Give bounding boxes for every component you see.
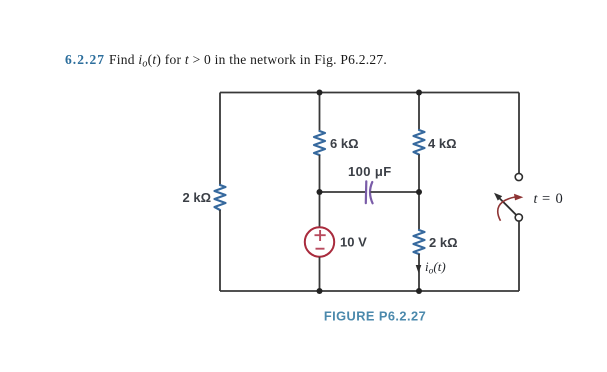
switch top terminal <box>515 173 522 180</box>
svg-text:2 kΩ: 2 kΩ <box>183 190 212 205</box>
svg-text:2 kΩ: 2 kΩ <box>429 235 458 250</box>
resistor 4 kOhm <box>414 130 425 155</box>
wire: right branch bottom <box>418 254 420 291</box>
node top middle <box>317 90 323 96</box>
wire: capacitor row left <box>320 191 367 193</box>
wire: middle branch top <box>319 93 321 132</box>
wire: capacitor row right <box>371 191 420 193</box>
svg-text:6.2.27Find io(t) for t > 0 in: 6.2.27Find io(t) for t > 0 in the networ… <box>65 52 387 70</box>
wire: middle branch mid <box>319 155 321 227</box>
node bottom middle <box>317 288 323 294</box>
svg-text:100 μF: 100 μF <box>348 164 392 179</box>
wire: top rail <box>220 92 519 94</box>
wire: left branch lower <box>219 210 221 291</box>
wire: bottom rail <box>220 290 519 292</box>
switch blade <box>500 198 517 215</box>
svg-text:io(t): io(t) <box>425 259 446 277</box>
wire: left branch upper <box>219 93 221 186</box>
wire: right branch mid <box>418 155 420 231</box>
switch blade arrowhead <box>494 193 502 201</box>
voltage source V1 10V circle <box>305 227 334 256</box>
resistor 6 kOhm <box>314 131 325 155</box>
node mid middle <box>317 189 323 195</box>
resistor 2 kOhm (left) <box>215 185 226 210</box>
node top right-branch <box>416 90 422 96</box>
switch arc arrowhead <box>514 194 523 201</box>
switch bottom terminal <box>515 214 522 221</box>
capacitor 100uF left plate <box>365 181 368 203</box>
wire: right branch top <box>418 93 420 131</box>
capacitor 100uF right curved plate <box>370 182 373 203</box>
current arrow io(t) <box>416 265 422 273</box>
svg-text:4 kΩ: 4 kΩ <box>428 136 457 151</box>
node bottom right-branch <box>416 288 422 294</box>
wire: middle branch bottom <box>319 257 321 291</box>
wire: right rail lower <box>518 222 520 292</box>
wire: right rail upper <box>518 93 520 174</box>
svg-text:FIGURE P6.2.27: FIGURE P6.2.27 <box>324 309 426 324</box>
node mid right-branch <box>416 189 422 195</box>
resistor 2 kOhm (right) <box>414 230 425 254</box>
switch actuation arc t=0 <box>498 197 515 221</box>
voltage source minus sign <box>316 248 325 250</box>
svg-text:10 V: 10 V <box>340 235 367 250</box>
svg-text:6 kΩ: 6 kΩ <box>330 136 359 151</box>
voltage source plus sign <box>315 230 326 241</box>
